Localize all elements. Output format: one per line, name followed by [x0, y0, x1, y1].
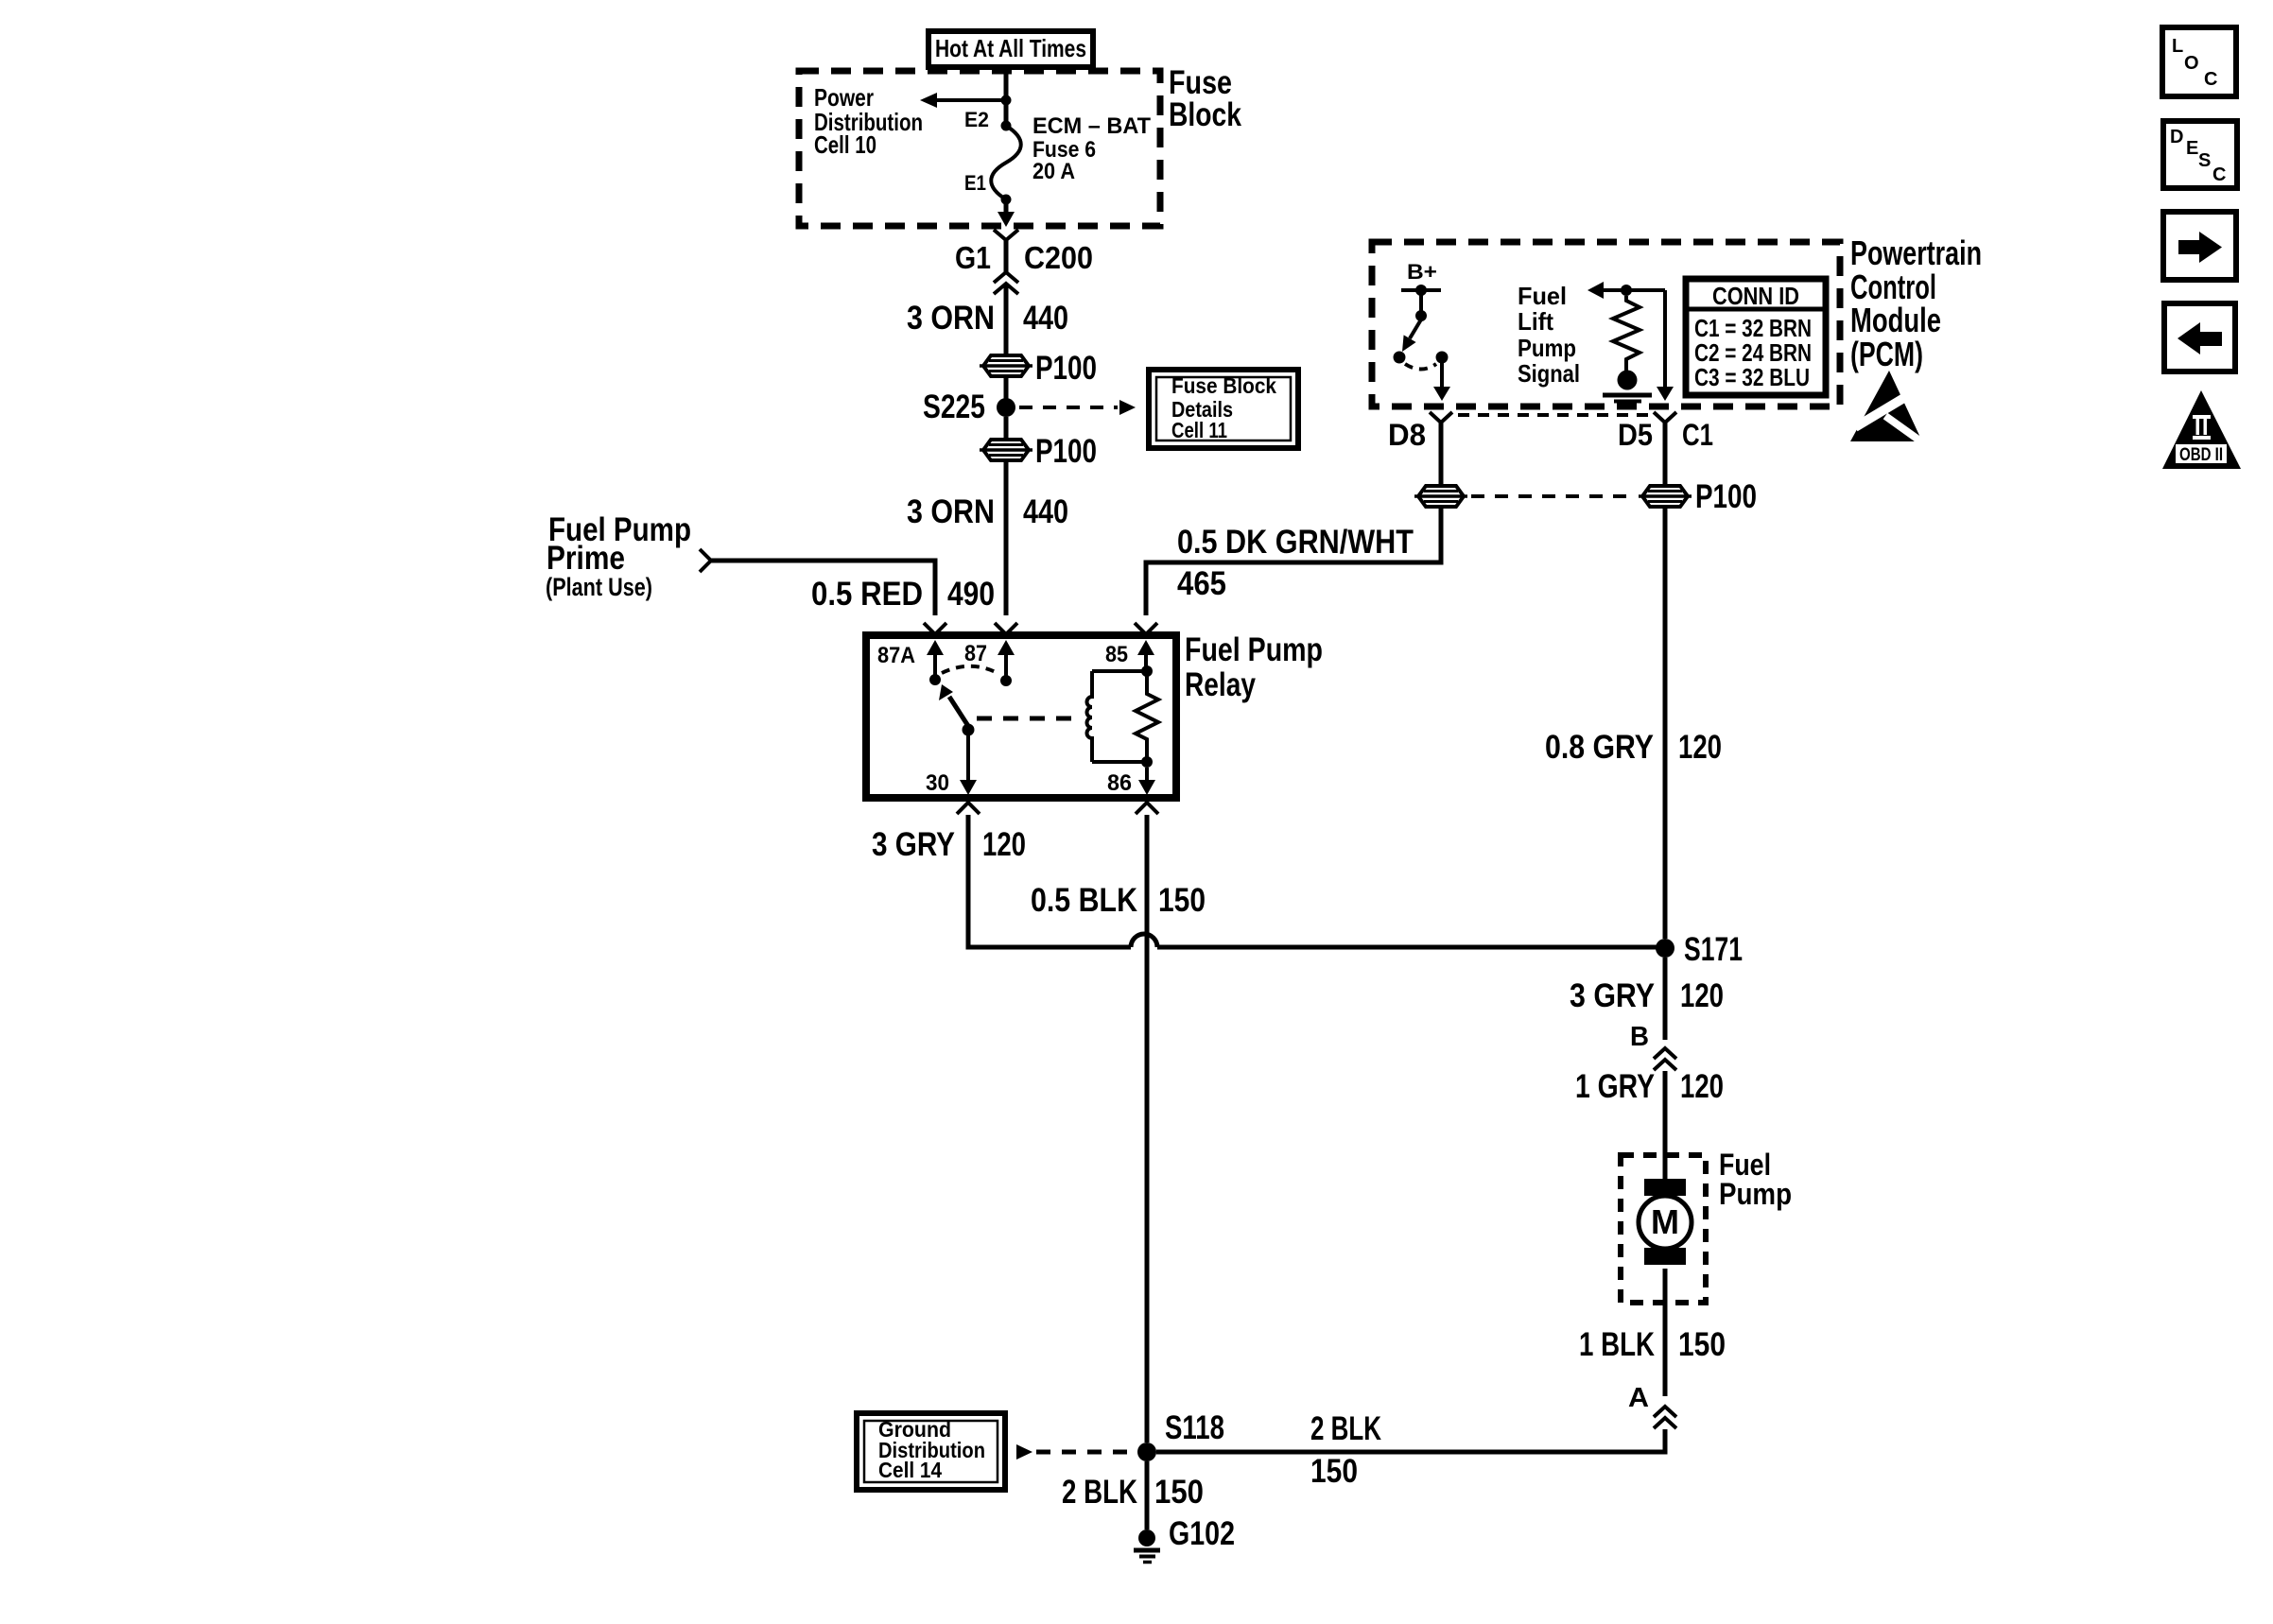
- wire 0.5 RED 490: [711, 561, 935, 615]
- relay entry chevron 87: [995, 623, 1017, 634]
- relay switch arm: [939, 684, 975, 736]
- connector P100 grommet D8: [1414, 486, 1467, 507]
- svg-text:0.8 GRY: 0.8 GRY: [1545, 729, 1654, 766]
- relay mechanical dashed link: [977, 717, 1079, 721]
- relay coil suppression resistor: [1136, 665, 1158, 768]
- relay pin 87A: [877, 640, 944, 685]
- svg-text:150: 150: [1678, 1326, 1726, 1363]
- svg-text:E: E: [2186, 138, 2198, 159]
- connector A double chevron: [1654, 1407, 1676, 1428]
- svg-text:C3 = 32 BLU: C3 = 32 BLU: [1694, 363, 1810, 391]
- svg-text:C200: C200: [1024, 240, 1093, 275]
- svg-text:S: S: [2198, 150, 2211, 171]
- splice S225: [997, 398, 1015, 417]
- svg-text:120: 120: [1680, 1068, 1724, 1105]
- svg-text:Hot At All Times: Hot At All Times: [935, 34, 1086, 62]
- svg-text:P100: P100: [1035, 350, 1097, 387]
- pull-up resistor inside PCM: [1613, 296, 1640, 371]
- svg-text:ECM – BAT: ECM – BAT: [1032, 113, 1151, 139]
- svg-text:440: 440: [1023, 300, 1068, 337]
- svg-text:Cell 10: Cell 10: [814, 130, 876, 159]
- svg-text:S225: S225: [923, 389, 985, 425]
- wire P100 to S225: [1004, 376, 1009, 401]
- PCM dashed box: [1372, 242, 1840, 406]
- node B+: [1401, 260, 1441, 321]
- wire 3 GRY 120 below S171: [1663, 958, 1668, 1040]
- svg-text:B: B: [1630, 1022, 1649, 1052]
- PCM driver switch arm: [1394, 320, 1422, 364]
- svg-text:E1: E1: [964, 171, 986, 195]
- svg-text:150: 150: [1154, 1474, 1204, 1511]
- svg-text:30: 30: [926, 770, 949, 796]
- PCM name label: [1850, 233, 1982, 373]
- svg-text:C: C: [2204, 69, 2217, 90]
- fuel pump relay name label: [1185, 631, 1323, 703]
- svg-text:S171: S171: [1684, 931, 1743, 968]
- svg-text:85: 85: [1105, 642, 1128, 667]
- OBD II triangle icon: [2162, 390, 2241, 469]
- ground G102: [1134, 1529, 1160, 1563]
- svg-text:440: 440: [1023, 493, 1068, 530]
- svg-text:465: 465: [1177, 565, 1226, 602]
- svg-text:Signal: Signal: [1518, 359, 1580, 388]
- wire from Hot box into fuse block: [1004, 71, 1009, 126]
- svg-text:OBD II: OBD II: [2179, 445, 2223, 465]
- fuel pump dashed box: [1621, 1155, 1706, 1303]
- relay exit chevron 30: [957, 803, 980, 814]
- relay dashed throw arc 87A-87: [942, 666, 999, 674]
- dashed reference arrow to S118: [1016, 1444, 1133, 1460]
- relay entry chevron 87A: [924, 623, 946, 634]
- svg-text:3 GRY: 3 GRY: [872, 826, 955, 863]
- fuse value labels: [1032, 113, 1151, 184]
- svg-text:120: 120: [1678, 729, 1722, 766]
- PCM connector face dashed line: [1458, 413, 1649, 417]
- fuel pump relay box: [866, 635, 1176, 798]
- svg-text:Lift: Lift: [1518, 307, 1553, 336]
- svg-text:0.5 DK GRN/WHT: 0.5 DK GRN/WHT: [1177, 524, 1414, 561]
- relay pin 87: [964, 640, 1015, 686]
- svg-text:87: 87: [964, 641, 987, 666]
- svg-text:Fuse Block: Fuse Block: [1171, 373, 1276, 398]
- wire 2 BLK 150 to G102: [1145, 1461, 1150, 1529]
- relay pin 30: [926, 735, 977, 796]
- svg-text:D8: D8: [1388, 418, 1426, 452]
- wire 2 BLK 150 to S118: [1156, 1429, 1665, 1452]
- back arrow icon box: [2164, 303, 2235, 371]
- svg-text:S118: S118: [1165, 1409, 1224, 1446]
- Fuse Block Details reference box: [1149, 370, 1298, 448]
- relay coil: [1087, 671, 1148, 762]
- svg-text:3 GRY: 3 GRY: [1570, 977, 1655, 1014]
- fuse F6 ECM-BAT symbol: [991, 121, 1021, 205]
- svg-text:(PCM): (PCM): [1850, 335, 1923, 373]
- CONN ID table: [1686, 279, 1826, 395]
- ground distribution reference box: [857, 1413, 1005, 1490]
- PCM switch output contact: [1436, 352, 1449, 364]
- relay exit chevron 86: [1136, 803, 1158, 814]
- svg-text:120: 120: [982, 826, 1026, 863]
- wire fuse to box edge with down arrow: [998, 199, 1015, 227]
- wire D5 to P100: [1663, 423, 1668, 487]
- svg-text:P100: P100: [1695, 478, 1757, 515]
- LOC icon box: [2162, 27, 2236, 96]
- wire hop over 0.5 BLK: [1131, 934, 1157, 947]
- power distribution reference text: [814, 83, 923, 159]
- connector P100 grommet lower: [980, 440, 1032, 460]
- PCM switch dashed throw arc: [1405, 364, 1436, 370]
- svg-text:20 A: 20 A: [1032, 159, 1075, 184]
- svg-text:150: 150: [1158, 882, 1206, 919]
- svg-text:Fuel: Fuel: [1518, 282, 1567, 310]
- splice S118: [1137, 1443, 1156, 1461]
- relay pin 86: [1107, 768, 1155, 796]
- svg-text:G1: G1: [955, 240, 991, 275]
- wire D8 to P100: [1439, 423, 1444, 487]
- svg-text:Cell 11: Cell 11: [1171, 418, 1227, 442]
- fuel pump prime connector chevron: [700, 549, 711, 572]
- wire 0.5 BLK 150 from pin 86: [1145, 815, 1150, 1443]
- wire S225 to P100 lower: [1004, 417, 1009, 440]
- ESD sensitive symbol: [1850, 371, 1929, 447]
- svg-text:D: D: [2170, 127, 2183, 147]
- svg-text:150: 150: [1310, 1453, 1358, 1490]
- relay entry chevron 85: [1135, 623, 1157, 634]
- pin D8 chevron: [1430, 412, 1452, 423]
- svg-text:Fuel Pump: Fuel Pump: [1185, 631, 1323, 668]
- Fuel Lift Pump Signal label: [1518, 282, 1580, 388]
- svg-text:0.5 BLK: 0.5 BLK: [1031, 882, 1137, 919]
- connector P100 grommet upper: [980, 355, 1032, 376]
- svg-text:CONN ID: CONN ID: [1712, 282, 1799, 310]
- svg-text:3 ORN: 3 ORN: [907, 300, 995, 337]
- svg-text:3 ORN: 3 ORN: [907, 493, 995, 530]
- wire 3 ORN 440 lower: [1004, 460, 1009, 615]
- pin D5 chevron: [1654, 412, 1676, 423]
- wire 0.5 DK GRN/WHT 465: [1146, 507, 1441, 615]
- fuel lift pump signal sense line with left arrow: [1588, 282, 1665, 299]
- svg-text:C1: C1: [1682, 418, 1713, 452]
- svg-text:L: L: [2172, 36, 2183, 57]
- connector B double chevron: [1654, 1048, 1676, 1070]
- Fuel Pump Prime labels: [546, 511, 691, 601]
- fuel pump name label: [1719, 1148, 1792, 1211]
- svg-text:Block: Block: [1169, 96, 1241, 133]
- svg-text:O: O: [2184, 53, 2199, 74]
- svg-text:87A: 87A: [877, 643, 915, 668]
- svg-text:G102: G102: [1169, 1515, 1235, 1552]
- connector C200 (G1): [994, 230, 1018, 294]
- svg-text:2 BLK: 2 BLK: [1310, 1410, 1381, 1447]
- svg-text:120: 120: [1680, 977, 1724, 1014]
- svg-text:86: 86: [1107, 770, 1132, 796]
- Hot At All Times box: [928, 31, 1093, 67]
- svg-text:Pump: Pump: [1719, 1177, 1792, 1211]
- svg-text:490: 490: [947, 576, 995, 613]
- internal ground: [1603, 371, 1652, 407]
- wire to D5 pin with down arrow: [1657, 290, 1674, 401]
- svg-text:Relay: Relay: [1185, 666, 1256, 703]
- svg-text:1 GRY: 1 GRY: [1575, 1068, 1655, 1105]
- fuse block dashed box: [799, 71, 1160, 226]
- svg-text:P100: P100: [1035, 433, 1097, 470]
- svg-text:(Plant Use): (Plant Use): [546, 573, 652, 601]
- svg-text:1 BLK: 1 BLK: [1579, 1326, 1655, 1363]
- connector P100 grommet D5: [1639, 486, 1692, 507]
- svg-text:0.5 RED: 0.5 RED: [811, 576, 923, 613]
- forward arrow icon box: [2163, 212, 2236, 280]
- svg-text:Cell 14: Cell 14: [878, 1458, 942, 1482]
- dashed pass-through link between P100 halves: [1471, 494, 1635, 498]
- wire 3 GRY 120 from pin 30: [968, 815, 1131, 947]
- wire to S171: [1157, 945, 1657, 950]
- svg-text:2 BLK: 2 BLK: [1062, 1474, 1137, 1511]
- svg-text:Prime: Prime: [547, 540, 625, 577]
- wire 1 BLK 150: [1663, 1269, 1668, 1396]
- fuel pump motor M1: [1639, 1179, 1692, 1265]
- svg-text:Module: Module: [1850, 301, 1941, 339]
- relay pin 85: [1105, 640, 1154, 671]
- svg-text:Powertrain: Powertrain: [1850, 233, 1982, 272]
- fuse block name label: [1169, 64, 1241, 133]
- wire to power distribution with left arrow: [920, 93, 1012, 108]
- svg-text:M: M: [1651, 1202, 1679, 1241]
- wire 3 ORN 440 upper: [1004, 285, 1009, 355]
- splice S171: [1656, 939, 1674, 958]
- svg-text:Pump: Pump: [1518, 334, 1576, 362]
- DESC icon box: [2163, 121, 2237, 188]
- svg-text:B+: B+: [1407, 260, 1437, 284]
- dashed reference arrow to fuse block details: [1019, 400, 1136, 415]
- wire 0.8 GRY 120: [1663, 507, 1668, 939]
- svg-text:A: A: [1628, 1383, 1649, 1413]
- wire 1 GRY 120: [1663, 1071, 1668, 1183]
- svg-text:C: C: [2212, 164, 2226, 185]
- wire to D8 pin with down arrow: [1433, 363, 1450, 401]
- svg-text:E2: E2: [964, 108, 989, 131]
- svg-text:D5: D5: [1618, 418, 1653, 452]
